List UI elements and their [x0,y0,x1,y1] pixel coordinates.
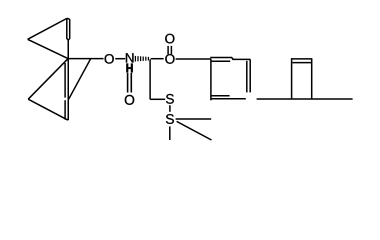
wire ring1 bottom edge inner [211,95,229,97]
wire ring1 right edge inner [246,61,248,93]
wire bond O to N [115,58,125,60]
wire C=O double bond line 1 [167,46,169,54]
node S second [166,114,174,124]
wire ring2 top edge main [291,58,313,60]
wire ring2 left edge [291,59,293,99]
wire bottom ring edge apex-upper [28,59,68,99]
wire S methyl bond down [169,126,171,140]
wire S methyl bond diagonal [177,121,212,140]
wire ring1 top edge main [210,58,233,60]
node O of N=O [125,95,134,105]
wire bottom ring edge apex-lower [28,99,68,120]
wire N=O double bond line 1 [127,73,129,93]
wire ring1 bottom edge main [211,98,246,100]
wire bottom double-bond inner line upper [64,63,66,98]
node S first [166,94,174,104]
wire ring2 top edge inner [292,62,311,64]
wire ring1 top edge inner [211,60,230,62]
wire bond CH2 to S [150,98,165,100]
wire bond C to O [68,58,103,60]
wire bond ester O to ring [176,58,212,60]
wire crossing diagonal bond [69,59,91,100]
wire top double bond right line [68,19,69,40]
wire main vertical bond line left bicyclic [67,40,69,121]
wire ring2 right edge [311,59,313,99]
node ester O [165,54,174,64]
hashed wedge bond N to stereocenter [135,56,148,62]
wire long baseline [257,98,353,100]
wire S-S bond [169,105,171,112]
node N [126,53,134,62]
wire top double bond left line [67,18,68,40]
wire bond C down to CH2 [149,59,151,99]
wire N=O double bond line 2 [130,73,132,93]
wire top ring edge apex-lower [28,39,68,58]
wire ring1 right edge main [249,59,251,92]
wire C=O double bond line 2 [170,46,172,54]
wire bottom double-bond inner line lower [64,100,66,119]
node O (O-N linker) [105,54,114,64]
node H on N [126,64,132,73]
wire top vertex cap [67,17,70,20]
node carbonyl O [165,34,174,44]
wire ring1 top bond V2-V3 [232,58,250,60]
wire ring1 left edge [210,59,212,100]
wire S methyl bond right [176,118,212,120]
wire top ring edge apex-upper [28,18,67,39]
wire bond C to ester O [151,58,164,60]
